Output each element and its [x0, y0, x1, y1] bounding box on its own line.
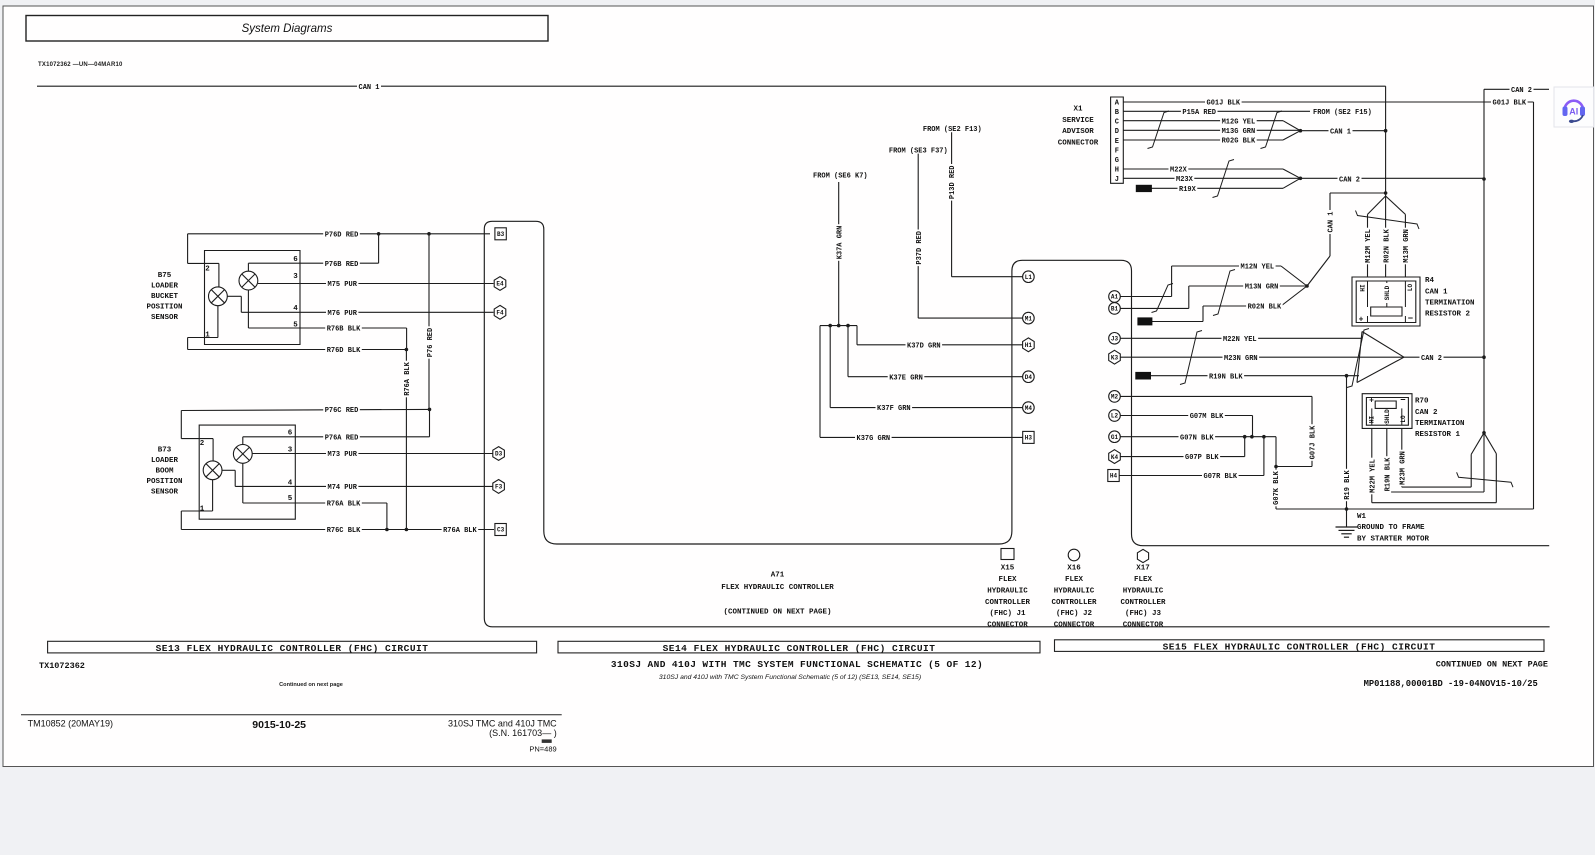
svg-text:−: −: [1400, 396, 1405, 406]
svg-text:6: 6: [293, 256, 298, 264]
title box SE13: [48, 641, 537, 653]
svg-text:R76B BLK: R76B BLK: [327, 326, 361, 334]
label M13M GRN: [1401, 228, 1410, 265]
svg-text:R76A BLK: R76A BLK: [443, 527, 477, 535]
box B75 body: [205, 251, 301, 345]
svg-text:G07J BLK: G07J BLK: [1309, 425, 1317, 459]
svg-text:Continued on next page: Continued on next page: [279, 682, 343, 688]
header System Diagrams box: [26, 16, 548, 42]
ground symbol W1: [1336, 527, 1358, 537]
svg-text:R70: R70: [1415, 398, 1429, 406]
svg-text:CONNECTOR: CONNECTOR: [1123, 622, 1164, 630]
wire CAN1 bus: [37, 85, 1386, 87]
svg-text:P76B RED: P76B RED: [325, 261, 359, 269]
wire G07J BLK vertical: [1311, 396, 1313, 466]
connector pin B3: [495, 228, 506, 240]
svg-text:TX1072362 —UN—04MAR10: TX1072362 —UN—04MAR10: [38, 62, 123, 68]
svg-text:PN=489: PN=489: [529, 745, 556, 754]
label R02G BLK: [1220, 136, 1257, 145]
connector pin H4: [1108, 470, 1119, 482]
wire M13N GRN: [1189, 285, 1307, 287]
junction at 1346.5,509.0: [1345, 507, 1349, 511]
wire P76D RED: [188, 233, 490, 235]
svg-text:K37E GRN: K37E GRN: [889, 374, 923, 382]
svg-text:System Diagrams: System Diagrams: [242, 23, 333, 35]
svg-text:HYDRAULIC: HYDRAULIC: [1123, 587, 1164, 595]
wire B75 pin1 up: [217, 306, 219, 338]
svg-text:CAN 1: CAN 1: [1328, 211, 1336, 232]
svg-text:R02N BLK: R02N BLK: [1248, 304, 1282, 312]
connector X15 symbol: [1001, 549, 1014, 560]
junction at 406.4,529.5: [405, 528, 409, 532]
terminator R02N: [1138, 318, 1152, 325]
label CAN 1 arrow: [1329, 126, 1353, 135]
connector pin C3: [495, 524, 506, 536]
wire tri right diag: [1484, 433, 1496, 454]
svg-text:J: J: [1115, 176, 1119, 184]
twist J3K3: [1180, 331, 1202, 385]
label R4: [1425, 277, 1475, 319]
wire R4 lower stubs: [1368, 316, 1406, 323]
wire B73 pin1 loop v: [180, 511, 182, 530]
svg-text:(FHC) J1: (FHC) J1: [989, 610, 1026, 618]
junction at 1484,432.8: [1482, 431, 1486, 435]
junction at 378.6,233.8: [377, 232, 381, 236]
box X1 connector: [1111, 97, 1124, 183]
svg-text:SE15 FLEX HYDRAULIC CONTROLLER: SE15 FLEX HYDRAULIC CONTROLLER (FHC) CIR…: [1163, 641, 1436, 652]
svg-text:CONNECTOR: CONNECTOR: [1054, 622, 1095, 630]
label CAN 1 bus: [357, 82, 381, 91]
sensor element B75 left: [209, 287, 228, 306]
svg-text:BUCKET: BUCKET: [151, 293, 179, 301]
wire R4 fan right: [1386, 196, 1406, 214]
svg-text:P76D RED: P76D RED: [325, 231, 359, 239]
label B73 sensor: [146, 447, 182, 497]
wire K37D riser: [856, 326, 858, 345]
svg-text:CONTROLLER: CONTROLLER: [985, 599, 1031, 607]
wire B73 x1 step: [234, 470, 236, 486]
wire B1 out: [1120, 307, 1189, 309]
wire arrow4 bot: [1357, 357, 1404, 382]
wire M13G GRN: [1123, 129, 1300, 131]
svg-text:SE14 FLEX HYDRAULIC CONTROLLER: SE14 FLEX HYDRAULIC CONTROLLER (FHC) CIR…: [663, 643, 936, 654]
wire K37A GRN vertical: [838, 182, 840, 326]
sensor element B73 left: [203, 461, 222, 480]
label W1 ground: [1357, 513, 1430, 544]
svg-text:P76A RED: P76A RED: [325, 434, 359, 442]
label M13N GRN: [1243, 282, 1280, 291]
svg-text:FLEX HYDRAULIC CONTROLLER: FLEX HYDRAULIC CONTROLLER: [721, 584, 834, 592]
svg-text:M13N GRN: M13N GRN: [1245, 284, 1279, 292]
svg-text:CAN 2: CAN 2: [1415, 409, 1438, 417]
svg-text:G07R BLK: G07R BLK: [1204, 473, 1238, 481]
wire R76C BLK: [181, 529, 494, 531]
wire W1 stem: [1346, 509, 1348, 527]
label P76 RED vertical: [425, 326, 434, 358]
junction at 1276,466.5: [1274, 465, 1278, 469]
wire M12M YEL leg: [1367, 214, 1369, 277]
wire R19N h: [1387, 491, 1484, 493]
box B73 body: [199, 425, 295, 519]
connector X16 symbol: [1068, 549, 1080, 561]
sensor element B75 right: [239, 271, 258, 290]
svg-text:SE13 FLEX HYDRAULIC CONTROLLER: SE13 FLEX HYDRAULIC CONTROLLER (FHC) CIR…: [156, 643, 429, 654]
svg-text:FLEX: FLEX: [1134, 576, 1153, 584]
svg-text:M23N GRN: M23N GRN: [1224, 355, 1258, 363]
svg-text:R76A BLK: R76A BLK: [327, 501, 361, 509]
svg-text:C3: C3: [497, 527, 505, 534]
connector pin F3: [493, 480, 505, 494]
svg-text:G07P BLK: G07P BLK: [1185, 454, 1219, 462]
svg-text:310SJ AND 410J WITH TMC SYSTEM: 310SJ AND 410J WITH TMC SYSTEM FUNCTIONA…: [611, 659, 983, 670]
twist can2 arrow: [1347, 329, 1369, 388]
svg-text:LOADER: LOADER: [151, 283, 179, 291]
svg-text:B75: B75: [158, 272, 172, 280]
wire G01J BLK vertical: [1533, 102, 1535, 509]
svg-text:2: 2: [200, 440, 205, 448]
wire B73 x2 top: [242, 437, 244, 445]
wire G01J bottom run: [1276, 508, 1534, 510]
label K37E GRN: [888, 372, 925, 381]
svg-text:D4: D4: [1025, 374, 1033, 381]
wire CAN2 vertical: [1483, 89, 1485, 433]
wire P13D RED vertical: [951, 132, 953, 277]
wire R4 fan left: [1368, 196, 1386, 214]
label M23N GRN: [1223, 353, 1260, 362]
svg-text:+: +: [1359, 316, 1364, 325]
terminator R19X: [1136, 185, 1151, 191]
connector pin K4: [1109, 450, 1121, 464]
svg-text:TERMINATION: TERMINATION: [1425, 300, 1475, 308]
label M22N YEL: [1222, 334, 1259, 343]
wire R19N BLK leg: [1386, 428, 1388, 492]
label R19 BLK: [1342, 469, 1351, 501]
label M74 PUR: [326, 482, 358, 491]
wire K37F GRN: [830, 407, 1024, 409]
junction at 838.7,325.6: [837, 324, 841, 328]
wire CAN1 arrow bot: [1283, 131, 1300, 140]
label K37F GRN: [876, 403, 913, 412]
svg-text:L2: L2: [1111, 413, 1119, 420]
svg-text:A71: A71: [771, 572, 785, 580]
connector X17 symbol: [1137, 549, 1148, 562]
label P13D RED: [947, 164, 956, 201]
wire CAN2 arrow top: [1283, 169, 1300, 178]
svg-text:M12G YEL: M12G YEL: [1222, 118, 1256, 126]
svg-text:SHLD: SHLD: [1384, 285, 1391, 300]
svg-text:POSITION: POSITION: [146, 304, 182, 312]
wire K37G GRN: [820, 436, 1023, 438]
svg-text:FLEX: FLEX: [998, 576, 1017, 584]
svg-text:K37D GRN: K37D GRN: [907, 342, 941, 350]
label P76B RED: [323, 259, 360, 268]
AI watermark logo: [1554, 87, 1594, 127]
svg-text:B1: B1: [1111, 306, 1119, 313]
wire P13D to L1: [952, 276, 1023, 278]
svg-text:4: 4: [293, 305, 298, 313]
wire P76 red lower v: [429, 409, 431, 436]
junction at 1385.6,130.7: [1384, 129, 1388, 133]
wire G07R BLK: [1119, 475, 1264, 477]
svg-text:5: 5: [293, 322, 298, 330]
wire CAN2 mid out: [1404, 356, 1484, 358]
svg-text:C: C: [1115, 119, 1119, 127]
label CAN 1 vertical: [1326, 210, 1335, 234]
label R76D BLK: [325, 345, 362, 354]
label K37D GRN: [906, 341, 943, 350]
wire M12N YEL: [1172, 265, 1281, 267]
wire R19 BLK vertical: [1346, 376, 1348, 509]
svg-text:RESISTOR 1: RESISTOR 1: [1415, 431, 1461, 439]
wire G07M drop: [1252, 416, 1254, 437]
junction at 1385.6,193: [1384, 191, 1388, 195]
X1 pin letters A-J: [1115, 100, 1120, 184]
label A71: [721, 572, 834, 617]
svg-text:CONNECTOR: CONNECTOR: [1058, 140, 1099, 148]
wire G07N BLK: [1120, 436, 1276, 438]
junction at 1263.9,436.7: [1262, 435, 1266, 439]
svg-text:RESISTOR 2: RESISTOR 2: [1425, 311, 1471, 319]
svg-text:3: 3: [288, 447, 293, 455]
svg-text:K37A GRN: K37A GRN: [836, 226, 844, 260]
svg-text:H4: H4: [1110, 473, 1118, 480]
connector pin L1: [1023, 271, 1035, 283]
wire M22N YEL: [1120, 337, 1362, 339]
wire M23N GRN: [1120, 356, 1404, 358]
wire K37F riser: [829, 326, 831, 408]
svg-text:R76A BLK: R76A BLK: [404, 361, 412, 395]
svg-text:K4: K4: [1111, 454, 1119, 461]
svg-text:X1: X1: [1073, 106, 1083, 114]
svg-text:P76C RED: P76C RED: [325, 407, 359, 415]
connector pin M4: [1023, 402, 1035, 414]
svg-text:P13D RED: P13D RED: [949, 165, 957, 199]
wire R19N BLK: [1151, 375, 1360, 377]
wire CAN1 out: [1300, 130, 1385, 132]
svg-text:R19N BLK: R19N BLK: [1384, 457, 1392, 491]
svg-text:E4: E4: [496, 281, 504, 288]
svg-text:POSITION: POSITION: [146, 478, 182, 486]
label M12G YEL: [1220, 116, 1257, 125]
wire CAN2 top stub: [1484, 88, 1549, 90]
wire K37E GRN: [848, 376, 1024, 378]
wire R02N out: [1152, 321, 1203, 323]
svg-text:CONTROLLER: CONTROLLER: [1120, 599, 1166, 607]
svg-text:M12N YEL: M12N YEL: [1241, 264, 1275, 272]
wire R4 internal legs: [1368, 281, 1406, 307]
wire B75 x1 right: [227, 295, 241, 297]
label M23X: [1175, 174, 1195, 183]
svg-text:R76C BLK: R76C BLK: [327, 527, 361, 535]
svg-text:TM10852 (20MAY19): TM10852 (20MAY19): [28, 719, 113, 729]
label CAN 2 top: [1510, 85, 1534, 94]
wire R4 fan stem: [1385, 193, 1387, 196]
svg-text:SHLD: SHLD: [1384, 409, 1391, 424]
wire B75 x1 step: [240, 296, 242, 312]
svg-text:R02N BLK: R02N BLK: [1384, 228, 1392, 262]
twist tri h: [1457, 472, 1513, 487]
svg-text:B73: B73: [158, 447, 172, 455]
wire M13M GRN leg: [1404, 214, 1406, 277]
twist X1 can1 a: [1148, 111, 1170, 149]
connector pin B1: [1109, 303, 1121, 315]
junction at 1300.4,130.7: [1299, 129, 1303, 133]
wire R76D BLK: [188, 349, 407, 351]
label M22X: [1169, 165, 1189, 174]
label M73 PUR: [326, 449, 358, 458]
svg-text:FROM (SE2 F15): FROM (SE2 F15): [1313, 109, 1372, 117]
label M12M YEL: [1363, 228, 1372, 265]
svg-text:CONNECTOR: CONNECTOR: [987, 622, 1028, 630]
label G07R BLK: [1202, 471, 1239, 480]
wire R19X: [1151, 187, 1283, 189]
connector pin A1: [1109, 291, 1121, 303]
junction at 429.5,409.4: [428, 408, 432, 412]
svg-text:F4: F4: [496, 310, 504, 317]
svg-text:310SJ and 410J with TMC System: 310SJ and 410J with TMC System Functiona…: [659, 674, 921, 681]
svg-text:FROM (SE6 K7): FROM (SE6 K7): [813, 173, 868, 181]
svg-text:M22M YEL: M22M YEL: [1369, 459, 1377, 493]
wire B73 pin2 loop v: [180, 411, 182, 439]
svg-text:(FHC) J3: (FHC) J3: [1125, 610, 1162, 618]
svg-text:M2: M2: [1111, 394, 1119, 401]
R70 internal labels: [1383, 409, 1392, 424]
svg-text:F3: F3: [495, 484, 503, 491]
svg-text:TX1072362: TX1072362: [39, 661, 85, 671]
svg-text:2: 2: [205, 266, 210, 274]
svg-text:A1: A1: [1111, 294, 1119, 301]
wire M76 PUR: [241, 311, 493, 313]
svg-text:G1: G1: [1111, 434, 1119, 441]
svg-text:AI: AI: [1569, 107, 1578, 117]
svg-text:L1: L1: [1025, 274, 1033, 281]
wire P76B RED: [248, 262, 378, 264]
svg-text:M13M GRN: M13M GRN: [1403, 229, 1411, 263]
box R70 resistor: [1375, 401, 1396, 408]
wire B73 pin1 stub: [181, 510, 212, 512]
junction at 1484,357.2: [1482, 355, 1486, 359]
terminator R19N: [1136, 372, 1151, 379]
label R76A BLK pin5: [325, 499, 362, 508]
svg-text:M1: M1: [1025, 315, 1033, 322]
svg-text:1: 1: [205, 332, 210, 340]
label G07J BLK: [1308, 424, 1317, 461]
label R76A BLK c3: [442, 525, 479, 534]
svg-text:M13G GRN: M13G GRN: [1222, 128, 1256, 136]
svg-text:M74 PUR: M74 PUR: [328, 484, 358, 492]
wire P76 RED vertical: [428, 234, 430, 410]
wire R02N riser: [1202, 306, 1204, 322]
svg-text:CAN 2: CAN 2: [1511, 87, 1532, 95]
wire R76B drop: [406, 328, 408, 350]
wire arrow4 top: [1362, 332, 1404, 358]
label R19N BLK r70: [1383, 456, 1392, 493]
svg-text:M23X: M23X: [1176, 176, 1194, 184]
connector pin L2: [1109, 410, 1121, 422]
svg-text:M12M YEL: M12M YEL: [1365, 229, 1373, 263]
svg-text:(CONTINUED ON NEXT PAGE): (CONTINUED ON NEXT PAGE): [723, 609, 831, 617]
label M22M YEL: [1368, 458, 1377, 495]
connector pin J3: [1109, 333, 1121, 345]
twist stair: [1213, 270, 1235, 316]
label G01J BLK 1: [1205, 98, 1242, 107]
wire CAN1 branch h: [1330, 192, 1386, 194]
connector pin D4: [1023, 371, 1035, 383]
wire G07J to G07K: [1276, 466, 1312, 468]
svg-text:J3: J3: [1111, 336, 1119, 343]
label R76B BLK: [325, 324, 362, 333]
wire G07M BLK: [1120, 415, 1252, 417]
svg-text:M22N YEL: M22N YEL: [1223, 336, 1257, 344]
label G07N BLK: [1179, 432, 1216, 441]
svg-text:R02G BLK: R02G BLK: [1222, 138, 1256, 146]
label P76C RED: [323, 405, 360, 414]
wire B73 pin1 up: [212, 480, 214, 511]
wire P76A RED: [243, 436, 430, 438]
wire B75 pin2 down: [218, 263, 220, 286]
connector pin G1: [1109, 431, 1121, 443]
label X16: [1051, 565, 1097, 630]
svg-text:TERMINATION: TERMINATION: [1415, 420, 1465, 428]
wire tri right leg: [1495, 454, 1497, 503]
svg-text:CAN 2: CAN 2: [1339, 176, 1360, 184]
svg-text:(S.N. 161703— ): (S.N. 161703— ): [489, 728, 557, 738]
wire CAN1 drop: [1385, 86, 1387, 193]
label X17: [1120, 565, 1166, 630]
svg-text:CAN 2: CAN 2: [1421, 355, 1442, 363]
label R76C BLK: [325, 525, 362, 534]
wire CAN1 diag to arrow: [1307, 256, 1330, 286]
label X15: [985, 565, 1031, 630]
svg-text:D: D: [1115, 128, 1119, 136]
svg-text:K3: K3: [1111, 354, 1119, 361]
connector pin E4: [494, 277, 506, 291]
box A71 bottom divider: [484, 618, 1549, 627]
wire G07R riser: [1263, 437, 1265, 476]
label R76A BLK vertical: [402, 361, 411, 398]
svg-text:GROUND TO FRAME: GROUND TO FRAME: [1357, 524, 1425, 532]
svg-text:G07N BLK: G07N BLK: [1180, 434, 1214, 442]
wire K37 bus: [820, 325, 857, 327]
wire CAN2 out: [1300, 177, 1484, 179]
svg-text:G07M BLK: G07M BLK: [1190, 413, 1224, 421]
svg-text:M76 PUR: M76 PUR: [328, 310, 358, 318]
box R4 inner: [1356, 281, 1416, 323]
svg-text:LO: LO: [1407, 284, 1414, 292]
svg-text:G01J BLK: G01J BLK: [1207, 100, 1241, 108]
wire R02G BLK: [1123, 139, 1283, 141]
label M75 PUR: [326, 279, 358, 288]
svg-text:W1: W1: [1357, 513, 1367, 521]
svg-text:E: E: [1115, 138, 1119, 146]
svg-text:D3: D3: [495, 451, 503, 458]
label R02N BLK r4: [1382, 228, 1391, 265]
wire K37D GRN: [857, 344, 1023, 346]
svg-text:(FHC) J2: (FHC) J2: [1056, 610, 1093, 618]
svg-text:FROM (SE3 F37): FROM (SE3 F37): [889, 147, 948, 155]
svg-text:H: H: [1115, 166, 1119, 174]
label K37A GRN: [834, 224, 843, 261]
svg-text:P76 RED: P76 RED: [427, 328, 435, 357]
wire B1 riser: [1188, 286, 1190, 308]
label CAN 2 mid: [1420, 353, 1444, 362]
wire M12G YEL: [1123, 120, 1283, 122]
svg-text:CONTINUED ON NEXT PAGE: CONTINUED ON NEXT PAGE: [1436, 660, 1548, 670]
connector pin H1: [1023, 338, 1035, 352]
wire M22M YEL leg: [1371, 428, 1373, 502]
svg-text:9015-10-25: 9015-10-25: [252, 719, 306, 731]
sensor element B73 right: [233, 445, 252, 464]
